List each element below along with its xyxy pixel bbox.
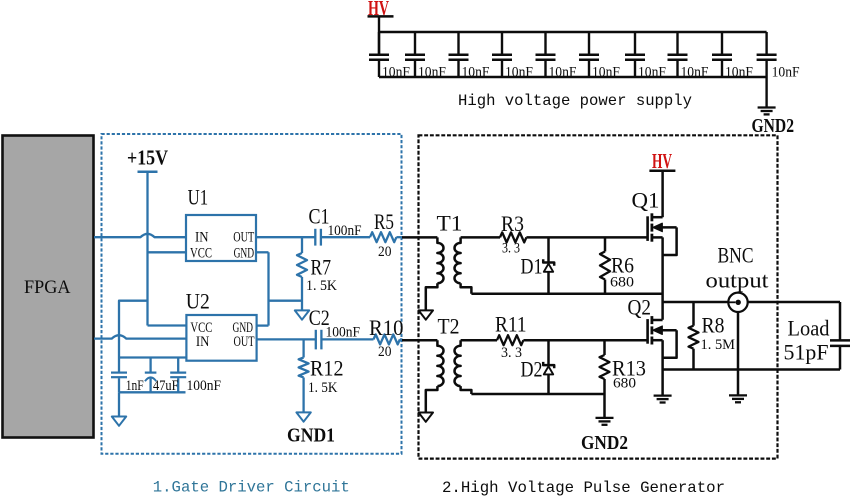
zener diode D1 [547, 237, 550, 261]
svg-text:R5: R5 [374, 209, 394, 234]
capacitor 10nF #1 of HV bank [369, 32, 389, 77]
wire bypass caps bottom rail [119, 391, 186, 393]
svg-text:D2: D2 [521, 357, 543, 382]
wire R12 to GND1 [302, 378, 304, 413]
svg-text:47uF: 47uF [153, 378, 179, 394]
svg-text:U2: U2 [186, 289, 210, 314]
wire U1 OUT to C1 [256, 236, 315, 238]
wire BNC to ground [737, 312, 740, 395]
capacitor 100nF (bypass) [170, 358, 186, 393]
resistor R13 680 [603, 340, 606, 355]
wire R3 to Q1 gate [526, 236, 646, 239]
svg-text:1.Gate Driver Circuit: 1.Gate Driver Circuit [153, 479, 350, 497]
svg-text:C1: C1 [309, 204, 330, 229]
wire rail to GND2 [603, 394, 606, 418]
capacitor 10nF #8 of HV bank [668, 32, 688, 77]
resistor R3 3.3 [500, 232, 526, 242]
wire T1 secondary bottom to rail [461, 283, 472, 294]
wire U1 GND stub [256, 251, 269, 253]
transistor Q2 (N-MOSFET) [648, 316, 677, 358]
wire R5 into T1 primary [402, 236, 437, 239]
resistor R11 3.3 [497, 335, 523, 345]
wire FPGA to U2 IN (hop over bypass branch) [94, 335, 186, 338]
wire R10 into T2 primary [402, 339, 437, 342]
svg-text:IN: IN [195, 230, 209, 246]
svg-text:FPGA: FPGA [24, 277, 71, 298]
resistor R10 20 [374, 334, 400, 344]
op-amp U1 (driver IC) box [186, 215, 256, 261]
ground arrow GND1 [296, 412, 310, 421]
svg-text:+15V: +15V [127, 146, 168, 170]
svg-text:10nF: 10nF [772, 65, 800, 81]
svg-text:R11: R11 [495, 312, 527, 337]
ground GND2 (top right) [758, 108, 776, 115]
svg-text:VCC: VCC [190, 246, 212, 262]
svg-text:High voltage power supply: High voltage power supply [458, 92, 692, 110]
svg-text:GND2: GND2 [581, 432, 628, 454]
ground arrow (R7 node) [295, 310, 309, 319]
wire Q1 source / Q2 drain vertical [661, 237, 664, 319]
ground (Q2 source) [654, 396, 672, 403]
capacitor 10nF #9 of HV bank [712, 32, 732, 77]
resistor R6 680 [604, 237, 607, 251]
transformer T1 secondary winding [455, 237, 461, 283]
svg-text:GND2: GND2 [752, 115, 795, 137]
op-amp U2 (driver IC) box [186, 315, 256, 361]
wire +15V to U2 VCC [148, 324, 187, 326]
wire top bus [379, 31, 767, 33]
wire U1 GND to U2 GND vertical [267, 252, 269, 325]
wire U2 GND stub [257, 324, 269, 326]
svg-text:20: 20 [378, 344, 392, 360]
wire output line [663, 301, 840, 304]
capacitor 10nF #3 of HV bank [449, 32, 469, 77]
wire R11 to Q2 gate [523, 339, 646, 342]
wire HV to top bus [378, 16, 380, 53]
capacitor 10nF #6 of HV bank [579, 32, 599, 77]
svg-text:GND: GND [234, 246, 255, 262]
capacitor 10nF #4 of HV bank [492, 32, 512, 77]
capacitor 10nF #7 of HV bank [625, 32, 645, 77]
svg-text:OUT: OUT [234, 334, 255, 350]
wire +15V rail vertical [146, 172, 148, 326]
wire T1 primary to arrow ground [426, 283, 438, 310]
svg-text:R12: R12 [310, 356, 344, 381]
svg-text:Q1: Q1 [632, 188, 660, 213]
svg-text:OUT: OUT [233, 230, 254, 246]
zener diode D2 [547, 340, 550, 364]
svg-text:680: 680 [610, 275, 634, 291]
capacitor 1nF [111, 358, 127, 393]
resistor R12 1.5K [299, 358, 309, 378]
wire U1 VCC to +15V rail [148, 251, 187, 253]
wire +15V branch to bypass caps [119, 301, 148, 358]
wire C1 to R5 [321, 236, 370, 238]
ground arrow (bypass caps) [112, 417, 126, 426]
svg-text:20: 20 [378, 244, 392, 260]
svg-text:R10: R10 [369, 315, 404, 340]
wire bank to GND2 [765, 77, 767, 108]
wire bottom bus of HV bank [379, 76, 767, 78]
svg-text:BNC: BNC [718, 243, 754, 268]
svg-text:1. 5K: 1. 5K [308, 380, 338, 396]
wire bottom output rail [663, 368, 840, 371]
svg-text:U1: U1 [188, 185, 209, 210]
svg-text:100nF: 100nF [187, 378, 222, 394]
svg-text:2.High Voltage Pulse Generator: 2.High Voltage Pulse Generator [442, 479, 725, 497]
svg-text:3. 3: 3. 3 [502, 241, 520, 257]
wire U2 OUT to C2 [257, 338, 316, 340]
capacitor C1 100nF (series) [315, 229, 321, 246]
capacitor 10nF #10 of HV bank [757, 32, 777, 77]
svg-text:3. 3: 3. 3 [501, 345, 522, 361]
wire FPGA to U1 IN (hop over +15V rail) [94, 234, 186, 237]
svg-text:HV: HV [652, 149, 672, 173]
svg-text:R3: R3 [501, 211, 524, 236]
BNC connector [728, 293, 747, 312]
wire gnd node horizontal [269, 300, 303, 302]
box 2: High Voltage Pulse Generator (black dashed) [419, 135, 778, 458]
svg-text:100nF: 100nF [326, 325, 361, 341]
wire R7 to gnd node [301, 277, 303, 310]
resistor R5 20 [370, 232, 396, 242]
capacitor 10nF #5 of HV bank [536, 32, 556, 77]
wire bypass caps top rail [119, 356, 186, 358]
wire C2 to R10 [321, 338, 373, 340]
svg-text:Load: Load [788, 316, 830, 341]
FPGA block [3, 136, 94, 438]
ground (BNC) [729, 395, 747, 402]
svg-text:R8: R8 [702, 313, 725, 338]
capacitor 47uF (polarized) [145, 358, 157, 393]
svg-text:51pF: 51pF [784, 340, 829, 365]
svg-text:T1: T1 [437, 211, 463, 236]
wire Q2 source to ground [661, 340, 664, 395]
box 1: Gate Driver Circuit (blue dashed) [102, 134, 402, 454]
wire R10 to box2 [400, 338, 403, 340]
resistor R7 1.5K [297, 253, 307, 277]
wire T2 secondary to R11 [461, 339, 497, 342]
wire T2 primary to arrow ground [426, 386, 438, 412]
svg-text:D1: D1 [521, 254, 543, 279]
svg-text:1nF: 1nF [126, 378, 144, 394]
wire R5 to box2 [396, 236, 402, 238]
transformer T1 primary winding [437, 237, 443, 283]
svg-text:680: 680 [613, 376, 636, 392]
wire lower ground rail [471, 393, 604, 396]
wire upper source rail [471, 293, 662, 296]
ground arrow (T2 primary) [419, 413, 433, 422]
transformer T2 primary winding [437, 340, 443, 386]
svg-text:output: output [706, 268, 770, 293]
ground arrow (T1 primary) [419, 310, 433, 319]
resistor R8 1.5M [692, 302, 695, 326]
wire R12 branch [302, 339, 304, 357]
svg-text:GND1: GND1 [287, 425, 335, 447]
capacitor C2 100nF (series) [316, 330, 322, 350]
svg-text:T2: T2 [438, 314, 460, 339]
wire to arrow ground (bypass) [118, 392, 120, 416]
svg-text:IN: IN [196, 334, 210, 350]
wire R7 branch [301, 237, 303, 253]
transformer T2 secondary winding [455, 340, 461, 386]
ground GND2 (box2) [596, 418, 614, 425]
svg-text:1. 5K: 1. 5K [306, 278, 337, 294]
svg-text:R7: R7 [311, 255, 332, 280]
capacitor 10nF #2 of HV bank [405, 32, 425, 77]
svg-text:Q2: Q2 [628, 295, 652, 320]
load capacitor 51pF loop [839, 302, 842, 340]
svg-text:1. 5M: 1. 5M [701, 337, 736, 353]
wire T1 secondary to R3 [461, 236, 500, 239]
wire T2 secondary bottom to rail [461, 386, 472, 394]
transistor Q1 (N-MOSFET) [648, 171, 677, 255]
